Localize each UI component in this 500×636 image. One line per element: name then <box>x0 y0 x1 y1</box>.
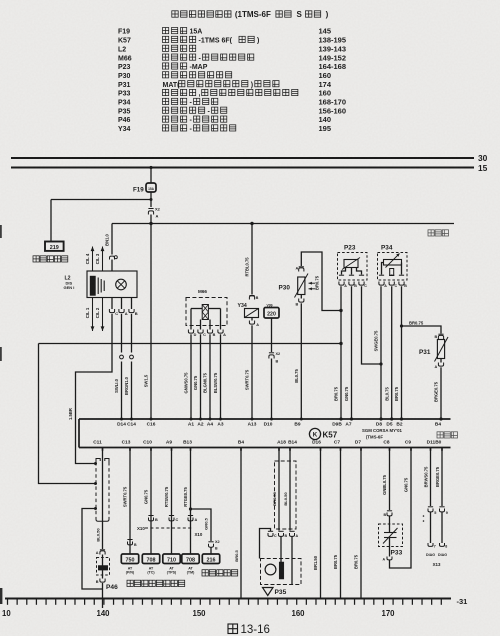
L2 output arrow CIL 2 <box>95 298 105 332</box>
K57 pin D7 <box>355 439 361 445</box>
P23 pin A <box>339 275 347 288</box>
bus 30 (battery+) <box>11 153 488 163</box>
wire P23-A sensor ground down to K57, label BR0.75, taps from P30 and rail <box>334 286 343 420</box>
label AT (TC) <box>147 566 155 574</box>
wire P34-C to K57 D5, label BL0.75 <box>384 286 393 420</box>
EGR gas temperature sensor P33 <box>379 524 403 557</box>
wire K57 C8 to P33, label GNBL0.75 <box>382 448 389 511</box>
L2 pin A <box>119 298 128 317</box>
legend row P34 <box>118 98 346 107</box>
title text: engine control module (1TMS-6F China S sedan) <box>172 10 329 19</box>
M66 pin A <box>218 326 226 338</box>
K57 pin A2 <box>197 421 203 427</box>
track number 160 <box>291 609 305 618</box>
K57 pin B13 <box>183 439 192 445</box>
wire X2 down to rail (SW1.5 feed) <box>150 215 152 224</box>
P34 pin B <box>399 275 407 288</box>
K57 pin D9B <box>332 421 342 427</box>
connector X2 pin B (at box 216) <box>208 540 219 554</box>
label AT (TM) <box>187 566 195 574</box>
wire P23-C jog right joining P34-A wire <box>362 286 383 365</box>
track number 150 <box>192 609 206 618</box>
box 216 cross reference <box>202 554 219 564</box>
K57 pin B4 <box>238 439 244 445</box>
K57 pin A13 <box>248 421 257 427</box>
box 220 cross reference (V99) <box>264 304 279 319</box>
wire P35 shield jog into sensor body <box>260 529 271 559</box>
shielded cable to P46 (screen capsule) <box>96 459 109 522</box>
wire K57 D7 to ground bus, label BR0.75 <box>354 448 361 600</box>
wire K57 C10 down to AT module, label GN0.75 <box>144 448 151 555</box>
K57 pin D14 <box>117 421 126 427</box>
wire K57 B0 to X13 pin 8, label BRGE0.75 <box>435 448 442 507</box>
legend row F19 <box>118 27 331 36</box>
wire P46-B to ground bus <box>102 583 104 608</box>
track number 170 <box>381 609 395 618</box>
M66 pin D <box>188 326 196 338</box>
bus 15 (ignition+) <box>11 163 488 173</box>
box 708 cross reference <box>182 554 199 564</box>
label: to instrument cluster <box>33 256 68 262</box>
K57 pin C14 <box>127 421 136 427</box>
connector X2 pin B <box>269 318 280 364</box>
K57 pin A3 <box>217 421 223 427</box>
wire K57 C13 down to AT module, label SWRT0.75 <box>123 448 130 555</box>
solenoid valve Y34 crankcase vent <box>238 303 259 318</box>
K57 pin C11 <box>93 439 102 445</box>
wire P34-B to K57 B2, label BR0.75, tap to P31 <box>394 286 403 420</box>
ground path from L2-C shield tap down to P46 return <box>82 507 103 589</box>
stepper motor M66 idle air control <box>186 289 227 326</box>
label AT (P/N) <box>126 566 135 574</box>
P35 connector pin A <box>289 531 298 538</box>
box 219 cross reference <box>45 242 64 251</box>
wire L2-B to K57 C14 with inline connector, label BRGN1.0 <box>124 314 133 421</box>
K57 pin D11B0 <box>427 439 442 445</box>
P34 pin C <box>389 275 397 288</box>
wire Y34-A to K57 A13, label SWRT0.75 <box>245 325 254 420</box>
wire M66-C to K57 A2, label GN0.75 <box>193 334 202 420</box>
wire M66-B to K57 A4, label BLGN0.75 <box>203 334 212 420</box>
label: to instrument cluster (bottom) <box>202 570 238 576</box>
supply rail node (to next page) <box>112 222 454 225</box>
connector X10 pin A <box>188 516 198 523</box>
K57 pin D10 <box>264 421 273 427</box>
L2 output arrow CIL 1 <box>85 298 95 332</box>
wire P31-A to K57 B4, label BRGE0.75 <box>434 367 443 420</box>
P30 pin A <box>296 267 304 272</box>
wire K57 B13 down to AT module, label RTGE0.75 <box>183 448 190 555</box>
ruler tick marks <box>8 600 442 605</box>
P23 pin B <box>349 275 357 288</box>
K57 pin D16 <box>312 439 321 445</box>
wire P34-A to K57 D8, label SWGE0.75 <box>374 286 383 420</box>
wires P35 pins into sensor body <box>281 536 292 562</box>
legend row P23 <box>118 62 346 71</box>
K57 pin A9 <box>166 439 172 445</box>
legend row P46 <box>118 115 331 124</box>
K57 pin B4 <box>435 421 441 427</box>
P33 pin B <box>384 511 393 524</box>
legend row P30 <box>118 71 331 80</box>
legend row K57 <box>118 36 346 45</box>
K57 pin A1 <box>188 421 194 427</box>
L2 output arrow CIL 3 <box>95 247 105 272</box>
P35 ground triangle <box>263 588 287 597</box>
wire P33-A return to K57 C9, label GN0.75 <box>390 448 412 569</box>
K57 module type label SGM CORSA MY'01 1TMS-6F <box>362 428 403 440</box>
K57 pin D8 <box>376 421 382 427</box>
K57 pin C7 <box>334 439 340 445</box>
L2 pin B <box>129 298 138 317</box>
wire L2-C down jog left to shield ground path <box>68 314 112 465</box>
wire K57 D11 to X13 pin 7, label BRWS0.75 <box>423 448 430 507</box>
wire K57 C11 down through shield to P46, label BL0.50 <box>95 448 102 550</box>
P35 connector pin C <box>268 531 277 538</box>
legend row P33 <box>118 89 331 98</box>
wire K57 C7 to ground bus, label BR0.75 <box>333 448 340 600</box>
K57 pin A18 <box>277 439 286 445</box>
label: continued on next page (top) <box>428 230 449 236</box>
P30 pin B <box>296 295 304 307</box>
connector X10 pin B <box>148 516 158 523</box>
ground designation -31 <box>457 597 468 606</box>
box 708 cross reference <box>142 554 159 564</box>
box 750 cross reference <box>121 554 138 564</box>
K57 pin A7 <box>345 421 351 427</box>
ground bus 31 with track ruler <box>5 598 451 600</box>
legend row P31 <box>118 80 332 89</box>
intake air temperature sensor P31 (NTC) <box>419 337 448 362</box>
ignition coil L2 (DIS) <box>64 271 138 298</box>
wire M66-A to K57 A3, label BLSW0.75 <box>213 334 222 420</box>
K57 pin B2 <box>396 421 402 427</box>
legend row L2 <box>118 44 346 53</box>
P23 pin C <box>359 275 367 288</box>
connector X10 dashed group line <box>145 528 203 537</box>
wire rail down to L2 pin D with inline connector, label BN1.0 <box>104 224 117 272</box>
K57 pin B9 <box>294 421 300 427</box>
K57 pin C16 <box>147 421 156 427</box>
wire P30-A up over to sensor-ground vertical, label BR0.75 <box>301 252 342 312</box>
K57 pin A4 <box>207 421 213 427</box>
throttle potentiometer P34 <box>378 245 408 281</box>
paper grain overlay <box>0 0 1 1</box>
M66 pin B <box>207 326 215 338</box>
diagnostic connector X13 pins 7 and 8 <box>426 512 447 567</box>
control module K57 connector block <box>79 419 451 448</box>
label AT (TPS) <box>167 566 177 574</box>
label: to automatic transmission module <box>127 580 185 586</box>
connector X10 pin at C13 wire <box>127 526 145 547</box>
wire M66-D to K57 A1, label GNWS0.75 <box>184 334 193 420</box>
MAP sensor P23 <box>338 245 368 281</box>
K57 pin C9 <box>405 439 411 445</box>
label: continued on next page (at K57) <box>437 432 458 438</box>
wire branch B13 to box 216, label GR0.5 <box>189 507 211 541</box>
pulse sensor P35 crankshaft <box>261 559 302 585</box>
K57 pin B14 <box>288 439 297 445</box>
sensor ground rail across page <box>39 342 343 485</box>
P35 connector pin B <box>278 531 287 538</box>
track number 10 <box>2 609 11 618</box>
fuse F19 15A <box>133 183 156 194</box>
K57 pin C10 <box>143 439 152 445</box>
wire P30-B down to K57 B9, label BL0.75 <box>294 303 303 420</box>
legend row M66 <box>118 53 346 62</box>
wire fuse F19 to connector X2 <box>150 193 153 208</box>
wire K57 A9 down to AT module, label RTSW0.75 <box>164 448 171 555</box>
wire X2/F19 feed down to K57 C16, label SW1.5 <box>144 224 153 421</box>
K57 symbol and name <box>309 428 337 439</box>
wire X2-B to K57 D10 <box>270 359 273 421</box>
wire K57 D16 to ground bus, label BR1.50 <box>313 448 320 600</box>
wire junction to box 219 (to instrument cluster) <box>51 200 151 243</box>
knock sensor P46 <box>97 555 110 576</box>
P31 pin A <box>435 359 444 370</box>
K57 bottom edge pin stubs <box>103 448 443 451</box>
P46 pin B <box>96 570 118 591</box>
wire K57 B4 to ground bus, label BR0.5 <box>234 448 241 600</box>
wire P34-B tap across to P31, label BR0.75 <box>402 321 442 334</box>
P46 pin A <box>96 550 105 555</box>
inline connector pins 5 and 9 <box>423 507 448 522</box>
coolant temperature sensor P30 (NTC) <box>279 274 316 298</box>
K57 pin C8 <box>383 439 389 445</box>
legend row Y34 <box>118 124 331 133</box>
scan artifact marks <box>0 225 2 604</box>
shielded pair to P35 crank sensor <box>272 448 296 531</box>
Y34 pin A <box>249 318 259 328</box>
K57 pin D5 <box>386 421 392 427</box>
wire L2-A to K57 D14 with inline connector, label SWLI1.0 <box>114 314 123 421</box>
P33 pin A <box>383 538 393 562</box>
wire bus15 to fuse F19 <box>149 166 152 183</box>
P34 pin A <box>379 275 387 288</box>
box 710 cross reference <box>163 554 180 564</box>
wire rail to Y34 pin B, label RTBL0.75 <box>244 224 258 301</box>
P31 pin B <box>435 334 444 339</box>
legend row P35 <box>118 106 346 115</box>
M66 pin C <box>198 326 206 338</box>
track number 140 <box>96 609 110 618</box>
L2 pin C <box>109 298 118 317</box>
figure caption 13-16 <box>228 624 270 636</box>
wire P23-B to K57 A7, label GN0.75 <box>344 286 353 420</box>
L2 output arrow CIL 4 <box>85 247 95 272</box>
connector X2 pin A <box>148 207 160 219</box>
connector X10 pin C <box>169 516 179 523</box>
K57 pin C13 <box>122 439 131 445</box>
